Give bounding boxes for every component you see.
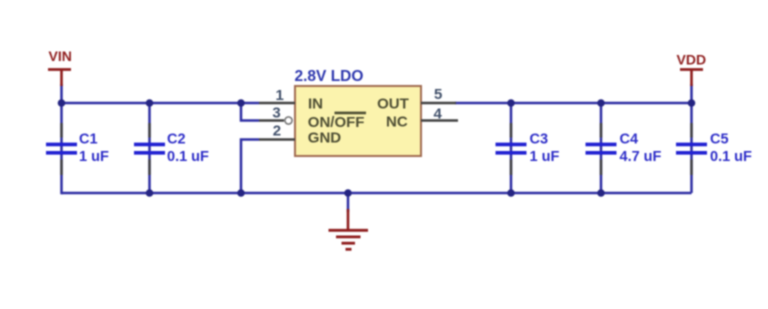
node: junction ground symbol (344, 189, 352, 197)
pin label IN (308, 95, 323, 112)
wire: ON/OFF branch down then right to pin 3 (241, 103, 259, 121)
op-amp U1 box: 2.8V LDO regulator (295, 68, 422, 156)
svg-text:C3: C3 (530, 132, 549, 148)
wire: GND pin 2 to bottom rail (241, 140, 259, 194)
pin 3 ON/OFF stub with inversion bubble (259, 104, 292, 124)
node: junction ON/OFF branch (237, 99, 245, 107)
pin 1 IN stub (259, 87, 295, 104)
svg-text:1 uF: 1 uF (530, 149, 560, 165)
wire: bottom ground rail (62, 192, 692, 195)
svg-text:0.1 uF: 0.1 uF (167, 149, 209, 165)
svg-text:3: 3 (272, 104, 280, 121)
wire: top rail right (pin 5 to VDD) (455, 102, 692, 105)
svg-text:VIN: VIN (49, 48, 72, 64)
node: junction C3 top (507, 99, 515, 107)
node: junction C2 top (146, 99, 154, 107)
svg-text:GND: GND (308, 130, 342, 147)
svg-text:C4: C4 (620, 132, 639, 148)
svg-text:4: 4 (434, 105, 443, 122)
pin label ON/OFF with overline (308, 113, 366, 131)
wire: C5 / VDD vertical (690, 84, 693, 193)
wire: C3 vertical (510, 103, 513, 193)
node: junction GND branch bottom (237, 189, 245, 197)
svg-text:C2: C2 (167, 132, 186, 148)
capacitor C5 (676, 123, 752, 175)
svg-text:OUT: OUT (377, 95, 409, 112)
svg-text:4.7 uF: 4.7 uF (620, 149, 662, 165)
node: junction C3 bottom (507, 189, 515, 197)
svg-text:NC: NC (386, 114, 408, 131)
pin label GND (308, 130, 342, 147)
svg-text:C1: C1 (79, 132, 98, 148)
pin 2 GND stub (259, 122, 295, 139)
svg-text:0.1 uF: 0.1 uF (710, 149, 752, 165)
svg-text:2.8V LDO: 2.8V LDO (295, 68, 364, 85)
wire: top rail left (VIN to pin 1) (62, 102, 260, 105)
wire: C2 vertical (148, 103, 151, 193)
svg-text:1: 1 (276, 87, 284, 104)
svg-text:2: 2 (273, 122, 281, 139)
pin 4 NC stub (unconnected) (421, 105, 458, 122)
pin 5 OUT stub (421, 86, 456, 103)
capacitor C2 (134, 123, 209, 175)
pin label OUT (377, 95, 409, 112)
svg-text:VDD: VDD (677, 52, 707, 68)
node: junction VDD/C5 top (688, 99, 696, 107)
node: junction VIN/top rail (58, 99, 66, 107)
power symbol VDD (677, 52, 707, 87)
svg-text:ON/OFF: ON/OFF (308, 114, 365, 131)
node: junction C2 bottom (146, 189, 154, 197)
svg-text:1 uF: 1 uF (79, 149, 109, 165)
svg-text:C5: C5 (710, 132, 729, 148)
capacitor C4 (586, 123, 662, 175)
node: junction C4 bottom (597, 189, 605, 197)
power symbol VIN (48, 48, 72, 86)
wire: C4 vertical (600, 103, 603, 193)
pin label NC (386, 114, 408, 131)
svg-text:5: 5 (434, 86, 442, 103)
capacitor C3 (496, 123, 560, 175)
capacitor C1 (46, 123, 109, 175)
ground symbol (329, 193, 369, 249)
wire: left rail through C1 (60, 84, 63, 194)
svg-text:IN: IN (308, 95, 323, 112)
node: junction C4 top (597, 99, 605, 107)
